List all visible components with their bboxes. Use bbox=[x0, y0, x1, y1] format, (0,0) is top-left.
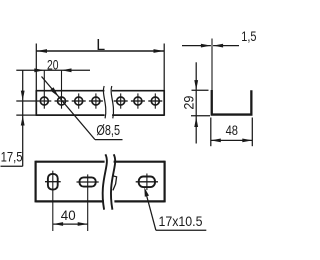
dimension 48 right extension line bbox=[251, 118, 253, 147]
slot 1 vertical bbox=[45, 171, 61, 231]
dimension 1,5 line bbox=[182, 44, 239, 48]
leader line for hole diameter bbox=[42, 77, 123, 140]
svg-text:40: 40 bbox=[61, 207, 76, 223]
break line right squiggle (side view) bbox=[111, 86, 113, 118]
svg-text:17,5: 17,5 bbox=[1, 148, 23, 164]
dimension 17,5 vertical line bbox=[21, 70, 25, 166]
hole 6 bbox=[131, 93, 145, 108]
hole 1 bbox=[16, 70, 51, 108]
cross-section U channel profile bbox=[211, 90, 253, 116]
dimension L line bbox=[36, 49, 164, 53]
slot 3 horizontal bbox=[136, 174, 158, 191]
dimension 29 top extension line bbox=[192, 89, 209, 91]
break line left squiggle (bottom view) bbox=[103, 154, 107, 209]
bottom view strip outline bbox=[36, 161, 165, 203]
break line right squiggle (bottom view) bbox=[111, 154, 115, 209]
dimension 48 left extension line bbox=[210, 118, 212, 147]
hole 4 bbox=[89, 93, 103, 108]
side view strip outline bbox=[36, 90, 164, 116]
dimension 17,5 underline bbox=[1, 165, 23, 167]
svg-text:48: 48 bbox=[226, 122, 239, 138]
dimension 20 line bbox=[16, 68, 90, 72]
leader line for slot size bbox=[144, 187, 206, 230]
dimension 1,5 extension line bbox=[211, 39, 213, 91]
svg-text:L: L bbox=[96, 37, 105, 54]
slot 2 horizontal bbox=[77, 174, 99, 231]
dimension 40 line bbox=[53, 222, 88, 226]
dimension 29 bottom extension line bbox=[191, 115, 210, 117]
svg-text:20: 20 bbox=[47, 56, 59, 72]
break wedge mark bbox=[112, 176, 117, 191]
hole 5 bbox=[114, 93, 128, 108]
dimension 48 line bbox=[211, 139, 253, 143]
svg-text:29: 29 bbox=[181, 95, 197, 109]
hole 2 bbox=[55, 70, 69, 108]
svg-text:17x10.5: 17x10.5 bbox=[159, 213, 203, 229]
break line left squiggle (side view) bbox=[103, 86, 105, 118]
hole 3 bbox=[72, 93, 86, 108]
dimension L right extension line bbox=[163, 44, 165, 91]
svg-text:Ø8,5: Ø8,5 bbox=[96, 123, 120, 139]
hole 7 bbox=[148, 93, 162, 108]
svg-text:1,5: 1,5 bbox=[241, 28, 256, 44]
dimension 29 line bbox=[194, 62, 198, 143]
dimension 17,5 lower extension line bbox=[16, 114, 37, 116]
dimension L left extension line bbox=[35, 44, 37, 91]
